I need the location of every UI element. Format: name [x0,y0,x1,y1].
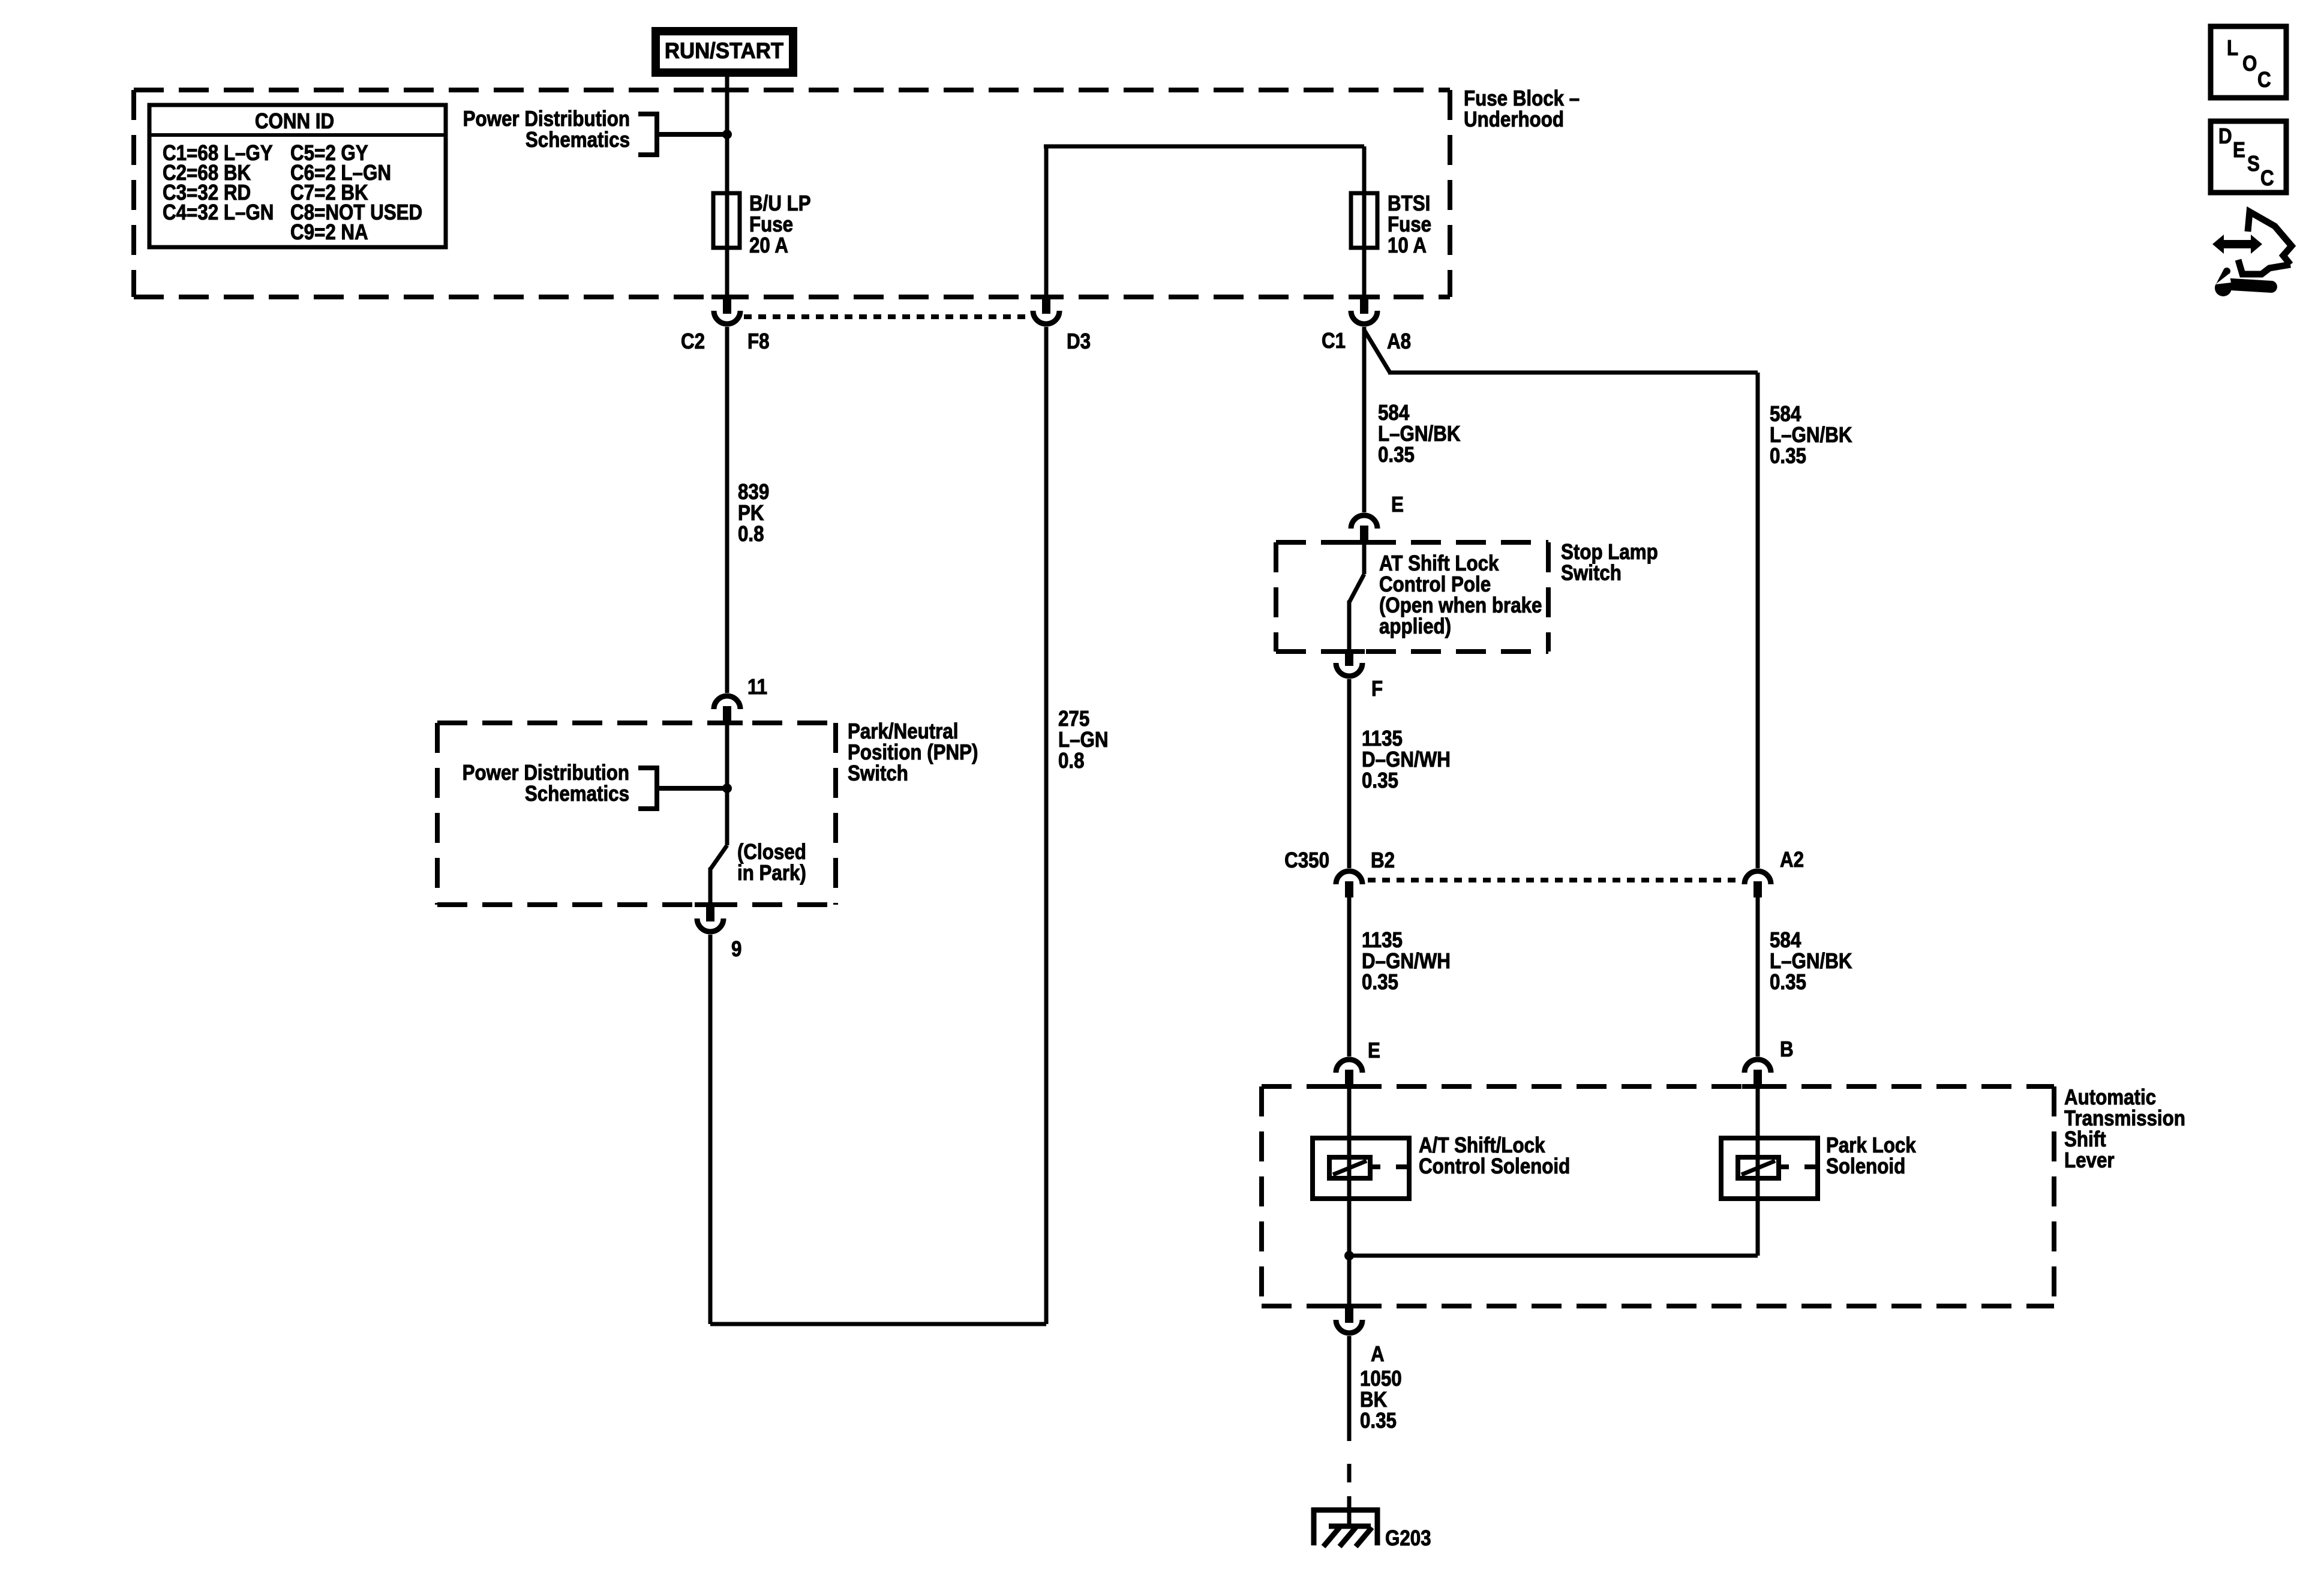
svg-text:0.35: 0.35 [1378,443,1415,467]
wire bottom run to D3 riser [710,1322,1046,1326]
svg-text:applied): applied) [1379,614,1451,639]
svg-text:C350: C350 [1284,848,1329,873]
svg-text:Lever: Lever [2064,1148,2115,1173]
svg-text:C4=32 L–GN: C4=32 L–GN [163,200,274,225]
wire 1050 BK [1347,1336,1352,1441]
svg-text:D3: D3 [1067,329,1091,354]
connector PNP pin 11 [714,696,740,709]
adjust-repair icon wrench [2215,271,2271,296]
wire 1050 BK dashed continuation [1347,1464,1352,1482]
svg-text:A8: A8 [1387,329,1411,354]
svg-text:E: E [2233,138,2245,163]
wire into park lock solenoid [1756,1086,1760,1256]
wire RUN/START to B/U LP fuse [725,77,729,193]
wire 839 PK (C2 to PNP pin 11) [725,327,729,693]
svg-text:10 A: 10 A [1388,233,1427,258]
svg-text:L: L [2227,36,2238,61]
svg-text:0.35: 0.35 [1360,1409,1397,1433]
svg-text:C1: C1 [1322,329,1346,353]
in-line connector face line B2-A2 [1368,878,1740,882]
svg-text:0.8: 0.8 [738,522,764,547]
fuse BTSI 10A [1351,193,1377,248]
svg-text:RUN/START: RUN/START [665,38,783,63]
svg-text:11: 11 [747,675,767,700]
svg-text:0.35: 0.35 [1362,970,1398,995]
PNP switch blade [725,723,729,845]
svg-text:Switch: Switch [848,761,908,786]
junction dot at RUN/START wire [722,130,732,139]
ground bus wire in shift lever [1347,1254,1758,1258]
svg-text:A: A [1371,1342,1385,1367]
PNP switch dashed box [437,721,836,725]
connector PNP pin 9 [695,902,726,907]
svg-text:Control Solenoid: Control Solenoid [1419,1154,1570,1179]
wire 584 from C1 down [1362,327,1367,512]
power feed RUN/START box [656,31,793,73]
svg-text:20 A: 20 A [749,233,788,258]
connector C2 pin F8 [711,295,743,299]
svg-text:C: C [2260,166,2274,191]
in-line connector C350 pin B2 [1336,871,1362,884]
svg-text:O: O [2242,52,2257,76]
wire D3 riser to BTSI fuse [1044,146,1049,297]
svg-text:F: F [1371,677,1383,701]
stop lamp switch pole blade [1362,542,1367,574]
A/T shift/lock control solenoid [1313,1138,1409,1199]
connector D3 [1031,295,1062,299]
connector shift lever pin B [1744,1059,1771,1073]
svg-text:A2: A2 [1780,848,1804,872]
connector shift lever pin A [1334,1304,1365,1308]
fuse B/U LP 20A [713,193,740,248]
svg-text:G203: G203 [1385,1526,1431,1551]
connector shift lever pin E [1336,1059,1362,1073]
svg-text:9: 9 [731,937,741,962]
ground G203 symbol [1311,1508,1380,1513]
svg-text:0.35: 0.35 [1770,970,1806,995]
adjust-repair icon outline [2248,212,2292,265]
svg-text:CONN ID: CONN ID [255,109,334,134]
wire 1135 (F to C350) [1347,679,1352,868]
wire BTSI fuse to C1 connector [1362,248,1367,297]
adjust-repair icon arrow [2212,235,2262,254]
svg-text:E: E [1368,1038,1380,1063]
svg-text:C9=2 NA: C9=2 NA [290,220,368,245]
svg-text:E: E [1391,493,1404,517]
wire 1135 (C350 to shift lever pin E) [1347,897,1352,1056]
DESC hotspot box [2211,121,2286,193]
svg-text:B: B [1780,1037,1794,1062]
svg-text:C2: C2 [681,329,705,354]
automatic transmission shift lever dashed box [1262,1084,2054,1089]
svg-text:B2: B2 [1371,848,1395,873]
svg-text:0.35: 0.35 [1362,769,1398,793]
park lock solenoid [1721,1138,1818,1199]
svg-text:0.35: 0.35 [1770,444,1806,469]
LOC hotspot box [2211,26,2286,98]
svg-text:Solenoid: Solenoid [1826,1154,1905,1179]
svg-text:S: S [2247,152,2260,176]
junction dot in PNP switch [722,784,732,793]
wire 584 branch to A8 [1364,330,1390,373]
svg-text:D: D [2218,124,2232,149]
svg-text:0.8: 0.8 [1058,749,1085,773]
svg-text:in Park): in Park) [737,861,806,885]
wire to shift lever pin A [1347,1256,1352,1306]
connector stop lamp pin F [1334,649,1365,654]
connector C1 pin A8 [1349,295,1380,299]
wire B/U LP fuse to C2 connector [725,248,729,297]
svg-text:F8: F8 [747,329,770,354]
fuse block - underhood dashed box [134,88,1450,92]
in-line connector A2 [1744,871,1771,884]
wire PNP pin 9 down [708,935,713,1324]
junction dot at ground bus [1344,1251,1354,1260]
svg-text:Underhood: Underhood [1464,107,1564,132]
in-line connector face line C2-D3 [744,314,1031,319]
CONN ID table box [149,105,446,247]
stop lamp switch dashed box [1276,540,1548,545]
svg-text:C: C [2257,68,2271,92]
wire 584 (A2 to shift lever pin B) [1756,897,1760,1056]
svg-text:Switch: Switch [1561,561,1622,586]
svg-text:Schematics: Schematics [525,782,629,806]
wire into A/T shift/lock solenoid [1347,1086,1352,1256]
svg-text:Schematics: Schematics [526,128,630,152]
connector stop lamp pin E [1351,515,1377,529]
